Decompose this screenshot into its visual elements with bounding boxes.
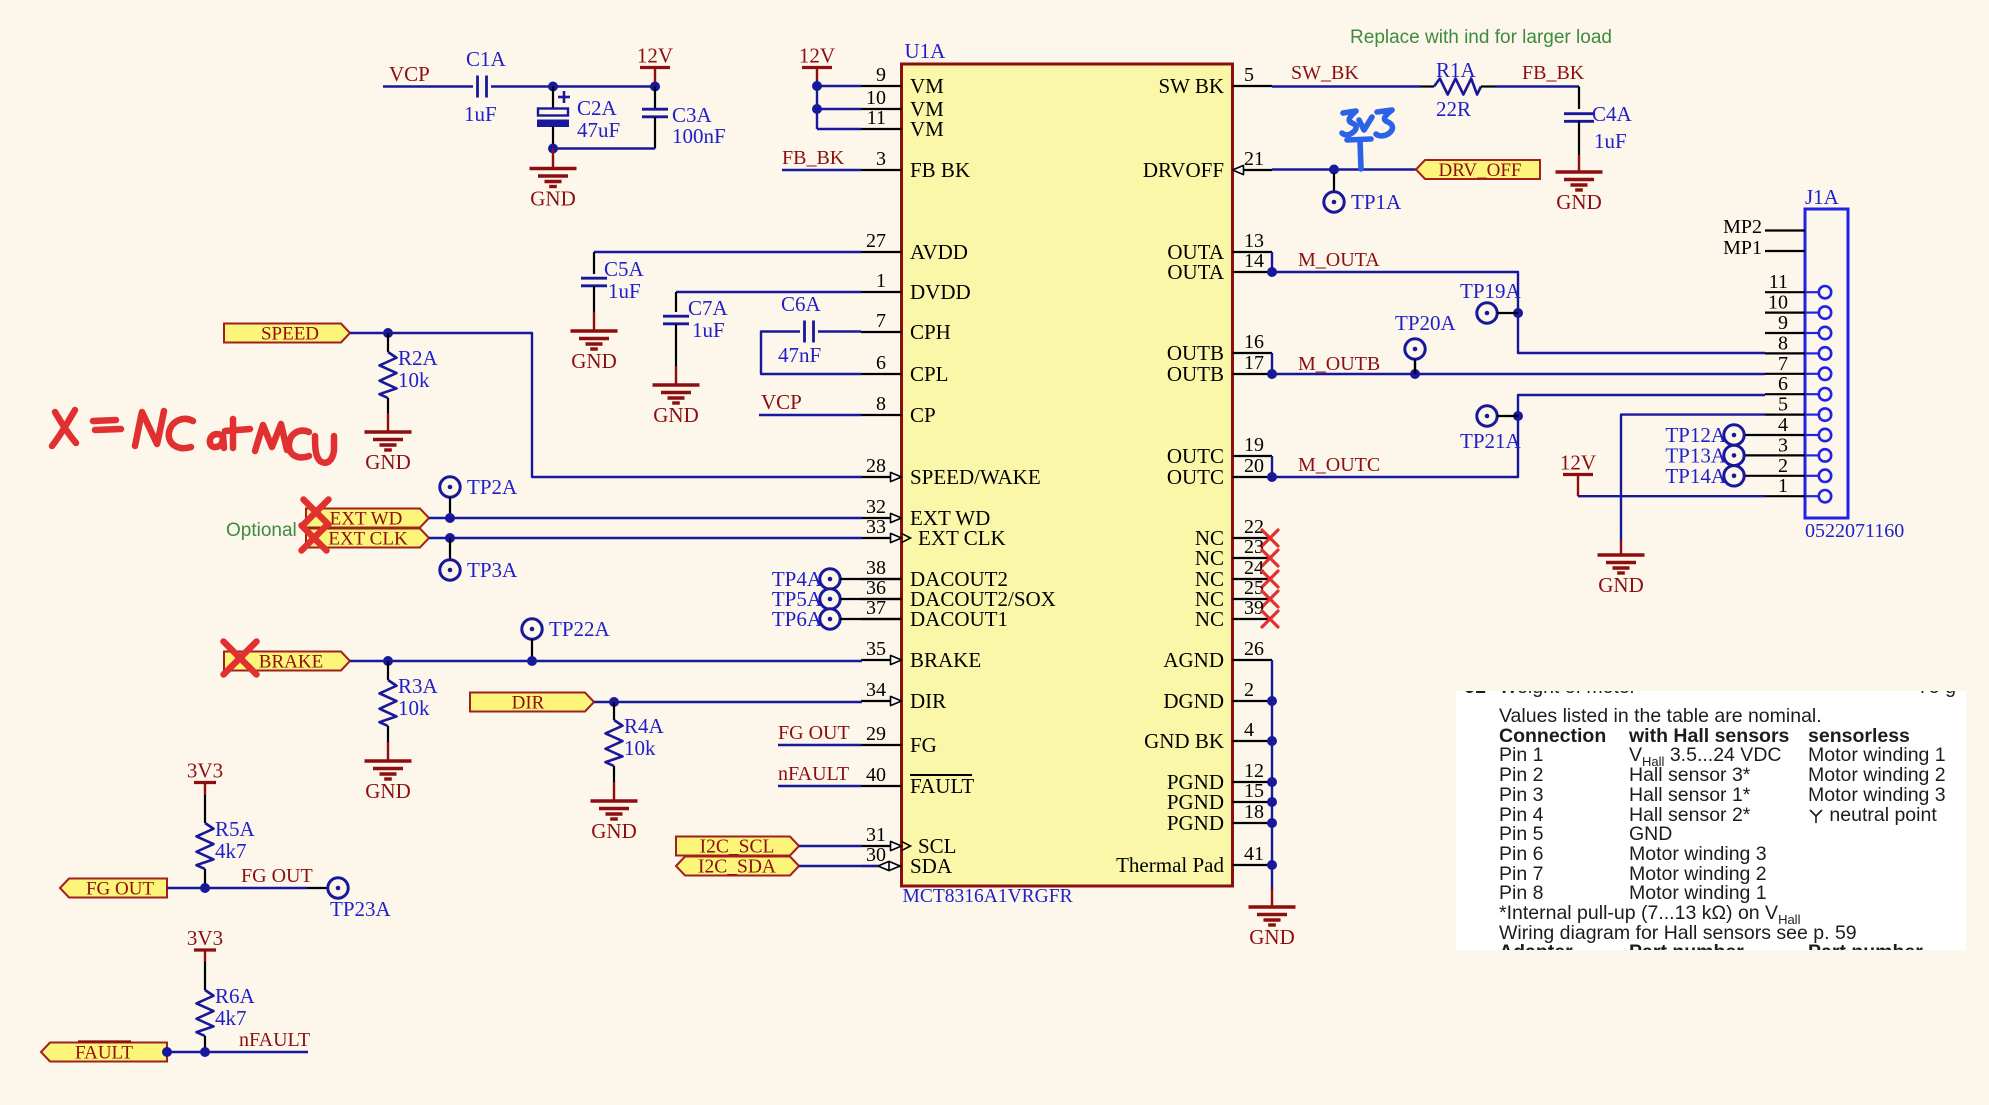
C5A GND stem bbox=[593, 312, 595, 331]
capacitor C2A plates bbox=[538, 109, 568, 116]
svg-text:R2A: R2A bbox=[398, 346, 439, 370]
svg-text:C2A: C2A bbox=[577, 96, 618, 120]
resistor R1A right lead bbox=[1481, 85, 1495, 87]
clock chevron pin 31 bbox=[902, 841, 911, 850]
wire M_OUTB to pin 7 of J1A bbox=[1272, 373, 1765, 375]
port flag I2C_SCL bbox=[676, 837, 799, 856]
pin 35 BRAKE stub bbox=[861, 659, 902, 661]
svg-text:DACOUT1: DACOUT1 bbox=[910, 607, 1008, 631]
svg-text:BRAKE: BRAKE bbox=[259, 652, 323, 673]
svg-text:19: 19 bbox=[1244, 434, 1264, 456]
pin 33 EXT CLK stub bbox=[861, 537, 902, 539]
capacitor C5A plates bbox=[581, 278, 607, 286]
R4A GND stem bbox=[613, 782, 615, 801]
port flag BRAKE bbox=[224, 652, 350, 671]
pin 31 SCL stub bbox=[861, 845, 902, 847]
pin 13 OUTA stub bbox=[1233, 251, 1273, 253]
input arrow pin 31 bbox=[891, 841, 902, 850]
wire EXT CLK to pin 33 bbox=[429, 537, 862, 539]
pin MP1 stub bbox=[1765, 250, 1805, 252]
svg-text:MCT8316A1VRGFR: MCT8316A1VRGFR bbox=[903, 886, 1073, 907]
pin 25 NC stub bbox=[1233, 598, 1273, 600]
junction TP21A bbox=[1513, 411, 1523, 421]
svg-text:Optional: Optional bbox=[226, 520, 297, 541]
svg-text:nFAULT: nFAULT bbox=[239, 1029, 310, 1051]
svg-text:OUTA: OUTA bbox=[1167, 260, 1224, 284]
svg-text:nFAULT: nFAULT bbox=[778, 763, 849, 785]
svg-text:12V: 12V bbox=[637, 44, 673, 68]
svg-text:R6A: R6A bbox=[215, 984, 256, 1008]
svg-text:5: 5 bbox=[1244, 64, 1254, 86]
pin 6 CPL stub bbox=[861, 373, 902, 375]
wire ground bus right of IC bbox=[1271, 660, 1273, 865]
wire TP6A to pin bbox=[840, 618, 902, 620]
svg-text:11: 11 bbox=[867, 107, 886, 129]
svg-text:3: 3 bbox=[1778, 434, 1788, 456]
svg-text:1: 1 bbox=[876, 270, 886, 292]
power 3V3 at R6A bbox=[194, 948, 216, 951]
bidirectional arrow pin 30 bbox=[878, 861, 900, 870]
svg-text:9: 9 bbox=[876, 64, 886, 86]
junction TP3A bbox=[445, 533, 455, 543]
test point TP5A bbox=[820, 589, 840, 609]
junction OUTB bbox=[1267, 369, 1277, 379]
connector J1A pin 5 bbox=[1765, 414, 1805, 416]
svg-text:0522071160: 0522071160 bbox=[1805, 520, 1904, 542]
test point TP19A bbox=[1477, 303, 1497, 323]
pin 28 SPEED/WAKE stub bbox=[861, 476, 902, 478]
wire nFAULT to pin 40 bbox=[778, 785, 861, 787]
GND stem bbox=[552, 149, 554, 169]
wire SPEED to junction bbox=[350, 332, 388, 334]
svg-text:SPEED: SPEED bbox=[261, 324, 319, 345]
svg-text:12: 12 bbox=[1244, 760, 1264, 782]
svg-text:23: 23 bbox=[1244, 536, 1264, 558]
svg-text:CPH: CPH bbox=[910, 320, 951, 344]
wire FG OUT to pin 29 bbox=[778, 744, 861, 746]
pin 27 AVDD stub bbox=[861, 251, 902, 253]
svg-text:U1A: U1A bbox=[905, 39, 947, 63]
pin 23 NC stub bbox=[1233, 557, 1273, 559]
pin 16 OUTB stub bbox=[1233, 352, 1273, 354]
red X over EXT WD bbox=[304, 500, 329, 525]
svg-text:39: 39 bbox=[1244, 597, 1264, 619]
svg-text:OUTB: OUTB bbox=[1167, 362, 1224, 386]
wire pin 5 to R1A bbox=[1272, 85, 1420, 87]
power 3V3 at R5A bbox=[194, 781, 216, 784]
svg-text:I2C_SCL: I2C_SCL bbox=[700, 837, 775, 858]
svg-text:TP6A: TP6A bbox=[772, 607, 823, 631]
capacitor C2A (polarized) top lead bbox=[552, 87, 554, 110]
svg-text:4k7: 4k7 bbox=[215, 839, 247, 863]
ground below IC bbox=[1249, 907, 1296, 925]
capacitor C4A bottom lead bbox=[1578, 121, 1580, 155]
port flag FAULT flag bbox=[41, 1043, 167, 1062]
junction TP1A bbox=[1329, 165, 1339, 175]
connector J1A pin 3 bbox=[1765, 454, 1805, 456]
connector J1A pin 9 bbox=[1765, 332, 1805, 334]
3V3 stem R6A bbox=[204, 950, 206, 962]
TP19A stem bbox=[1497, 312, 1518, 314]
svg-text:4: 4 bbox=[1244, 719, 1254, 741]
svg-text:R5A: R5A bbox=[215, 817, 256, 841]
svg-text:DRV_OFF: DRV_OFF bbox=[1439, 160, 1522, 181]
svg-text:TP19A: TP19A bbox=[1460, 279, 1522, 303]
junction TP22A bbox=[527, 656, 537, 666]
connector J1A pin 2 bbox=[1765, 475, 1805, 477]
svg-text:SW BK: SW BK bbox=[1158, 74, 1224, 98]
svg-text:13: 13 bbox=[1244, 230, 1264, 252]
wire C1A to 12V node bbox=[491, 85, 655, 87]
svg-text:GND: GND bbox=[365, 450, 411, 474]
junction R5A/FG OUT bbox=[200, 883, 210, 893]
svg-text:DRVOFF: DRVOFF bbox=[1143, 158, 1224, 182]
svg-text:10: 10 bbox=[866, 87, 886, 109]
test point TP22A bbox=[522, 619, 542, 639]
svg-text:3: 3 bbox=[876, 148, 886, 170]
wire FAULT to nFAULT bbox=[167, 1051, 308, 1053]
resistor R4A body bbox=[606, 720, 623, 766]
pin 10 VM stub bbox=[861, 108, 902, 110]
svg-text:GND: GND bbox=[571, 349, 617, 373]
ground under R4A bbox=[591, 801, 638, 819]
pin 17 OUTB stub bbox=[1233, 373, 1273, 375]
svg-text:TP3A: TP3A bbox=[467, 558, 518, 582]
svg-text:SPEED/WAKE: SPEED/WAKE bbox=[910, 465, 1041, 489]
ground at J1A pin 5 bbox=[1598, 555, 1645, 573]
svg-text:DIR: DIR bbox=[910, 689, 946, 713]
svg-text:25: 25 bbox=[1244, 577, 1264, 599]
wire to VM pin 11 bbox=[817, 128, 861, 130]
svg-text:R1A: R1A bbox=[1436, 58, 1477, 82]
connector J1A pin 6 bbox=[1765, 393, 1805, 395]
test point TP3A bbox=[440, 560, 460, 580]
svg-text:4: 4 bbox=[1778, 414, 1788, 436]
svg-text:15: 15 bbox=[1244, 780, 1264, 802]
pin 5 SW BK stub bbox=[1233, 85, 1273, 87]
12V stem J1A bbox=[1577, 475, 1579, 497]
wire C3A bottom to C2A bottom bbox=[553, 147, 655, 149]
wire TP14A to connector bbox=[1744, 475, 1765, 477]
test point TP6A bbox=[820, 609, 840, 629]
svg-text:36: 36 bbox=[866, 577, 886, 599]
svg-text:EXT WD: EXT WD bbox=[330, 509, 403, 530]
wire CPH pin 7 right of C6A bbox=[818, 330, 861, 332]
C7A GND stem bbox=[675, 366, 677, 385]
junction R3A bbox=[383, 656, 393, 666]
connector J1A pin 4 bbox=[1765, 434, 1805, 436]
pin 29 FG stub bbox=[861, 744, 902, 746]
wire to VM pin 10 bbox=[817, 108, 861, 110]
port flag EXT CLK bbox=[306, 529, 429, 548]
junction ground bus y741 bbox=[1267, 736, 1277, 746]
svg-text:TP22A: TP22A bbox=[549, 617, 611, 641]
svg-text:M_OUTC: M_OUTC bbox=[1298, 454, 1380, 476]
svg-text:10k: 10k bbox=[398, 368, 430, 392]
svg-text:FG OUT: FG OUT bbox=[778, 722, 850, 744]
svg-text:9: 9 bbox=[1778, 312, 1788, 334]
svg-text:38: 38 bbox=[866, 557, 886, 579]
svg-text:GND BK: GND BK bbox=[1144, 729, 1224, 753]
clock chevron pin 33 bbox=[902, 533, 911, 542]
pin 39 NC stub bbox=[1233, 618, 1273, 620]
svg-text:5: 5 bbox=[1778, 394, 1788, 416]
svg-text:29: 29 bbox=[866, 723, 886, 745]
pin 4 GND BK stub bbox=[1233, 740, 1273, 742]
wire DIR to pin 34 bbox=[594, 701, 862, 703]
wire FG OUT to TP23A bbox=[167, 887, 307, 889]
pin 41 Thermal Pad stub bbox=[1233, 864, 1273, 866]
capacitor C7A bottom lead bbox=[675, 324, 677, 366]
resistor R2A top lead bbox=[387, 333, 389, 352]
junction TP2A bbox=[445, 513, 455, 523]
junction at C3A top bbox=[650, 82, 660, 92]
svg-text:GND: GND bbox=[1556, 190, 1602, 214]
svg-text:1uF: 1uF bbox=[464, 102, 497, 126]
resistor R1A left lead bbox=[1420, 85, 1434, 87]
port flag EXT WD bbox=[306, 509, 429, 528]
pin 14 OUTA stub bbox=[1233, 271, 1273, 273]
pin 20 OUTC stub bbox=[1233, 476, 1273, 478]
svg-text:8: 8 bbox=[876, 393, 886, 415]
TP21A stem bbox=[1497, 415, 1518, 417]
12V stem to VM bbox=[816, 68, 818, 81]
svg-text:TP1A: TP1A bbox=[1351, 190, 1402, 214]
junction ground bus y802 bbox=[1267, 797, 1277, 807]
svg-text:C7A: C7A bbox=[688, 296, 729, 320]
port flag DIR bbox=[470, 693, 594, 712]
svg-text:CPL: CPL bbox=[910, 362, 949, 386]
resistor R2A bottom lead bbox=[387, 398, 389, 413]
ground under C2A bbox=[530, 169, 577, 187]
connector J1A pin 8 bbox=[1765, 352, 1805, 354]
resistor R5A top lead bbox=[204, 795, 206, 823]
test point TP13A bbox=[1724, 445, 1744, 465]
port flag I2C_SDA bbox=[676, 857, 799, 876]
pin 8 CP stub bbox=[861, 414, 902, 416]
pin 38 DACOUT2 stub bbox=[861, 578, 902, 580]
svg-text:16: 16 bbox=[1244, 331, 1264, 353]
svg-text:40: 40 bbox=[866, 764, 886, 786]
resistor R5A bottom lead bbox=[204, 869, 206, 888]
connector J1A pin 7 bbox=[1765, 373, 1805, 375]
svg-text:GND: GND bbox=[1249, 925, 1295, 949]
svg-text:M_OUTB: M_OUTB bbox=[1298, 353, 1380, 375]
wire 12V vertical to VM pins bbox=[816, 80, 818, 129]
red X no-connect pin 22 bbox=[1262, 530, 1278, 546]
svg-text:7: 7 bbox=[876, 310, 886, 332]
resistor R6A top lead bbox=[204, 962, 206, 990]
pin 26 AGND stub bbox=[1233, 659, 1273, 661]
svg-text:18: 18 bbox=[1244, 801, 1264, 823]
svg-text:SDA: SDA bbox=[910, 854, 953, 878]
R3A GND stem bbox=[387, 742, 389, 761]
junction TP19A bbox=[1513, 308, 1523, 318]
resistor R3A body bbox=[380, 680, 397, 726]
pin 3 FB BK stub bbox=[861, 169, 902, 171]
wire FB_BK to pin 3 bbox=[782, 169, 861, 171]
connector J1A pin 10 bbox=[1765, 312, 1805, 314]
connector J1A body bbox=[1805, 209, 1848, 518]
svg-text:DGND: DGND bbox=[1163, 689, 1224, 713]
svg-text:1uF: 1uF bbox=[1594, 129, 1627, 153]
GND stem J1A bbox=[1620, 540, 1622, 555]
connector J1A pin 1 bbox=[1765, 495, 1805, 497]
wire pin 5 of J1A to GND bbox=[1621, 415, 1765, 540]
capacitor C3A bottom lead bbox=[654, 117, 656, 149]
thermal GND stem bbox=[1271, 888, 1273, 907]
wire VCP to CP pin 8 bbox=[759, 414, 861, 416]
capacitor C5A bottom lead bbox=[593, 286, 595, 312]
red X no-connect pin 25 bbox=[1262, 591, 1278, 607]
handwritten annotation X = NC at MCU (red) bbox=[52, 410, 334, 463]
input arrow pin 35 bbox=[891, 655, 902, 664]
input arrow pin 33 bbox=[891, 533, 902, 542]
junction OUTC bbox=[1267, 472, 1277, 482]
pin 19 OUTC stub bbox=[1233, 455, 1273, 457]
wire M_OUTA to pin 8 of J1A bbox=[1272, 272, 1765, 353]
TP20A stem bbox=[1414, 359, 1416, 374]
test point TP21A bbox=[1477, 406, 1497, 426]
svg-text:AVDD: AVDD bbox=[910, 240, 968, 264]
ground under C5A bbox=[571, 331, 618, 349]
svg-text:10k: 10k bbox=[624, 736, 656, 760]
ground under C4A bbox=[1556, 172, 1603, 190]
svg-text:MP1: MP1 bbox=[1723, 237, 1762, 259]
port flag DRV_OFF bbox=[1416, 160, 1540, 179]
TP2A stem bbox=[449, 497, 451, 518]
pin 30 SDA stub bbox=[861, 865, 902, 867]
svg-text:BRAKE: BRAKE bbox=[910, 648, 981, 672]
svg-text:47nF: 47nF bbox=[778, 343, 821, 367]
junction at C2A top bbox=[548, 82, 558, 92]
svg-text:FB BK: FB BK bbox=[910, 158, 970, 182]
wire EXT WD to pin 32 bbox=[429, 517, 862, 519]
pin 2 DGND stub bbox=[1233, 700, 1273, 702]
svg-text:35: 35 bbox=[866, 638, 886, 660]
TP1A stem bbox=[1333, 173, 1335, 192]
wire R1A to C4A bbox=[1495, 85, 1579, 87]
junction R6A/FAULT bbox=[200, 1047, 210, 1057]
svg-text:1: 1 bbox=[1778, 475, 1788, 497]
svg-text:32: 32 bbox=[866, 496, 886, 518]
svg-text:28: 28 bbox=[866, 455, 886, 477]
3V3 stem R5A bbox=[204, 783, 206, 796]
ground under C7A bbox=[653, 385, 700, 403]
capacitor C4A top lead bbox=[1578, 87, 1580, 110]
junction ground bus y865 bbox=[1267, 860, 1277, 870]
capacitor C2A bottom lead bbox=[552, 126, 554, 149]
C2A plus sign bbox=[558, 91, 570, 103]
svg-text:TP20A: TP20A bbox=[1395, 311, 1457, 335]
wire VCP to C1A bbox=[383, 85, 473, 87]
svg-text:C1A: C1A bbox=[466, 47, 507, 71]
pin 7 CPH stub bbox=[861, 331, 902, 333]
wire DVDD pin 1 bbox=[676, 291, 861, 293]
test point TP2A bbox=[440, 477, 460, 497]
svg-text:26: 26 bbox=[1244, 638, 1264, 660]
svg-text:33: 33 bbox=[866, 516, 886, 538]
resistor R6A body bbox=[197, 990, 214, 1036]
red X no-connect pin 23 bbox=[1262, 550, 1278, 566]
svg-text:22R: 22R bbox=[1436, 97, 1471, 121]
wire OUTB pins 16-17 bbox=[1271, 353, 1273, 374]
svg-text:12V: 12V bbox=[799, 44, 835, 68]
wire AVDD pin 27 bbox=[594, 251, 861, 253]
pin 9 VM stub bbox=[861, 85, 902, 87]
port flag SPEED bbox=[224, 324, 350, 343]
svg-text:VCP: VCP bbox=[389, 62, 430, 86]
svg-text:2: 2 bbox=[1244, 679, 1254, 701]
svg-text:SW_BK: SW_BK bbox=[1291, 62, 1359, 84]
junction at GND node bbox=[548, 144, 558, 154]
junction ground bus y823 bbox=[1267, 818, 1277, 828]
power 12V above C3A bbox=[640, 66, 670, 69]
svg-text:C6A: C6A bbox=[781, 292, 822, 316]
R2A GND stem bbox=[387, 413, 389, 432]
TP22A stem bbox=[531, 639, 533, 661]
12V stem bbox=[654, 68, 656, 83]
wire OUTC pins 19-20 bbox=[1271, 456, 1273, 477]
svg-text:FAULT: FAULT bbox=[75, 1043, 133, 1064]
svg-text:FB_BK: FB_BK bbox=[1522, 62, 1585, 84]
svg-text:VCP: VCP bbox=[761, 390, 802, 414]
svg-text:6: 6 bbox=[876, 352, 886, 374]
svg-text:TP14A: TP14A bbox=[1665, 464, 1727, 488]
svg-text:3V3: 3V3 bbox=[187, 926, 223, 950]
TP23A lead bbox=[307, 887, 328, 889]
input arrow pin 34 bbox=[891, 696, 902, 705]
svg-text:30: 30 bbox=[866, 844, 886, 866]
input arrow pin 32 bbox=[891, 513, 902, 522]
ground under R3A bbox=[365, 761, 412, 779]
svg-text:FAULT: FAULT bbox=[910, 774, 974, 798]
svg-text:TP2A: TP2A bbox=[467, 475, 518, 499]
capacitor C4A plates bbox=[1564, 114, 1594, 122]
svg-text:R3A: R3A bbox=[398, 674, 439, 698]
junction R4A bbox=[609, 697, 619, 707]
junction VM10 bbox=[812, 104, 822, 114]
svg-text:Thermal Pad: Thermal Pad bbox=[1116, 853, 1224, 877]
svg-text:8: 8 bbox=[1778, 332, 1788, 354]
svg-text:Replace with ind for larger lo: Replace with ind for larger load bbox=[1350, 27, 1612, 48]
capacitor C7A plates bbox=[663, 316, 689, 324]
svg-text:M_OUTA: M_OUTA bbox=[1298, 249, 1380, 271]
svg-text:J1A: J1A bbox=[1805, 185, 1840, 209]
svg-text:FG: FG bbox=[910, 733, 937, 757]
svg-text:GND: GND bbox=[653, 403, 699, 427]
svg-text:37: 37 bbox=[866, 597, 886, 619]
red X over EXT CLK bbox=[302, 526, 327, 551]
TP3A stem bbox=[449, 538, 451, 560]
svg-text:R4A: R4A bbox=[624, 714, 665, 738]
svg-text:MP2: MP2 bbox=[1723, 216, 1762, 238]
wire 12V to pin 1 of J1A bbox=[1578, 495, 1765, 497]
svg-text:1uF: 1uF bbox=[608, 279, 641, 303]
svg-text:GND: GND bbox=[591, 819, 637, 843]
svg-text:10k: 10k bbox=[398, 696, 430, 720]
wire TP13A to connector bbox=[1744, 454, 1765, 456]
svg-text:VM: VM bbox=[910, 117, 944, 141]
svg-text:10: 10 bbox=[1768, 292, 1788, 314]
svg-text:6: 6 bbox=[1778, 373, 1788, 395]
wire DRVOFF pin 21 to DRV_OFF flag bbox=[1272, 168, 1416, 170]
junction OUTA bbox=[1267, 267, 1277, 277]
red X over BRAKE bbox=[224, 642, 257, 675]
port flag FG OUT flag bbox=[60, 879, 167, 898]
svg-text:PGND: PGND bbox=[1167, 811, 1224, 835]
resistor R6A bottom lead bbox=[204, 1036, 206, 1052]
